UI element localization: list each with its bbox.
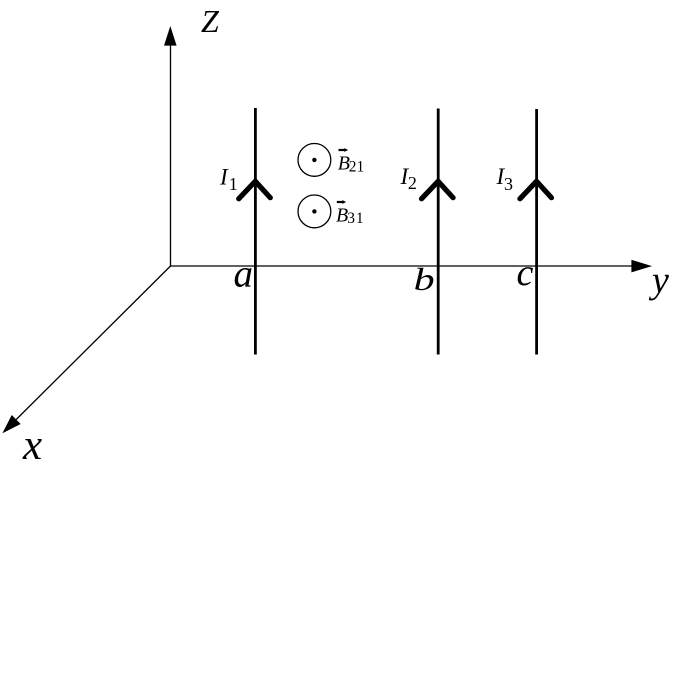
field symbol B21 (out of page) (298, 144, 331, 177)
label I1 (219, 164, 238, 194)
y-axis (171, 265, 634, 267)
z-axis (170, 44, 172, 266)
svg-text:b: b (414, 261, 435, 297)
y-axis arrowhead (631, 260, 652, 273)
svg-text:31: 31 (347, 210, 364, 227)
svg-text:3: 3 (504, 174, 513, 194)
svg-text:Z: Z (201, 3, 220, 39)
x-axis arrowhead (2, 415, 20, 433)
wire 1 (current I1) at y=a (254, 108, 257, 355)
current arrow on wire 1 (239, 181, 271, 199)
z-axis arrowhead (164, 26, 177, 46)
current arrow on wire 2 (422, 181, 454, 199)
wire 3 (current I3) at y=c (535, 109, 538, 355)
current arrow on wire 3 (520, 181, 552, 199)
label I3 (496, 164, 514, 194)
svg-text:I: I (219, 164, 229, 189)
wire 2 (current I2) at y=b (437, 109, 440, 355)
svg-text:2: 2 (408, 173, 417, 193)
label B21 with vector arrow (338, 148, 365, 175)
svg-text:x: x (22, 422, 42, 469)
label B31 with vector arrow (336, 200, 364, 227)
label I2 (400, 164, 417, 193)
svg-text:a: a (234, 253, 254, 296)
svg-text:21: 21 (349, 158, 365, 175)
field symbol B31 (out of page) (298, 195, 331, 228)
svg-text:1: 1 (229, 174, 238, 194)
svg-text:c: c (517, 252, 534, 294)
x-axis (16, 266, 170, 420)
svg-text:y: y (648, 260, 669, 302)
